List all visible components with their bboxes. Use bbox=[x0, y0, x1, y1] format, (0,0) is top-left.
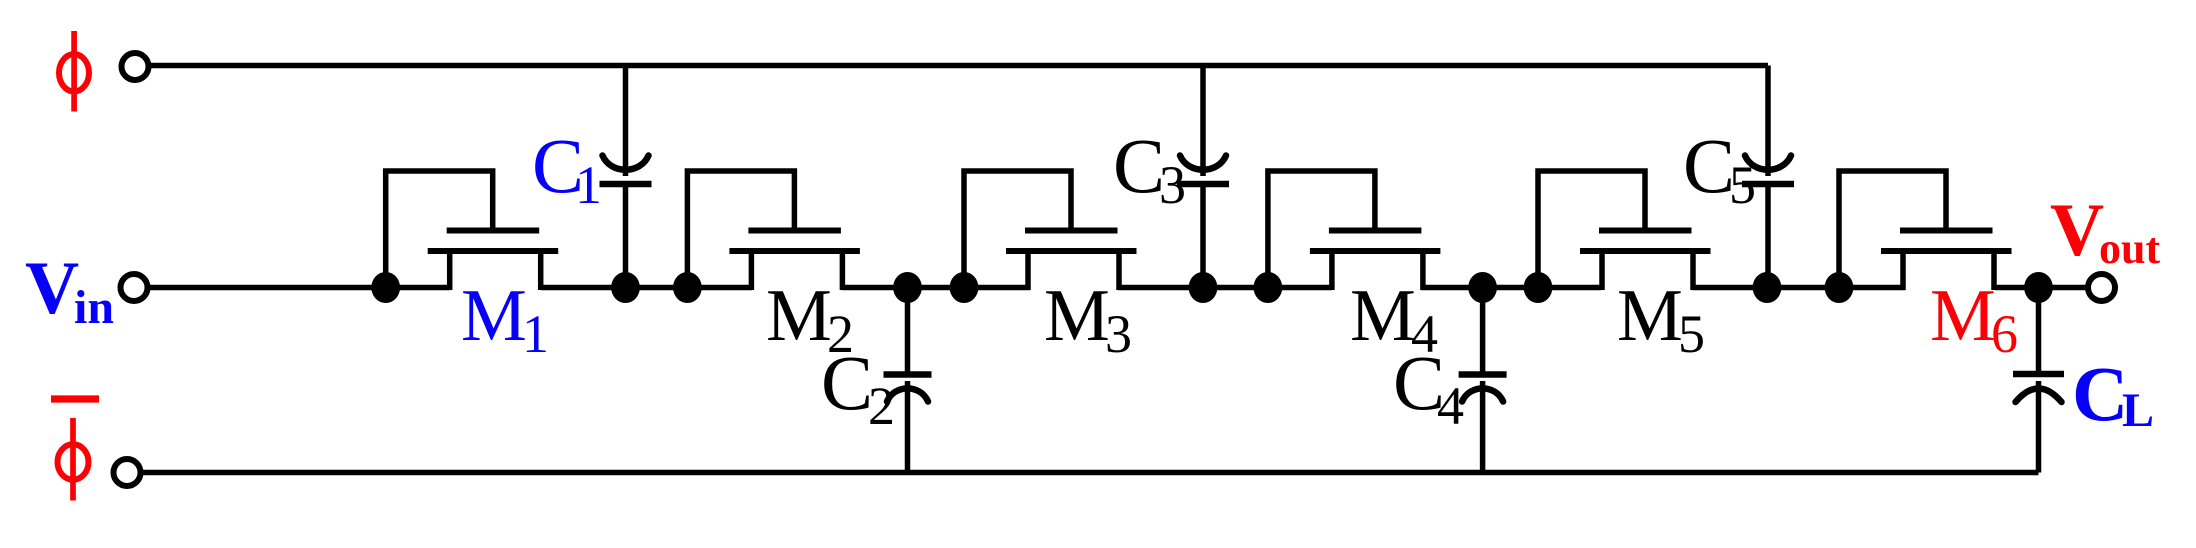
svg-text:1: 1 bbox=[575, 155, 602, 215]
node dot: M6 gate tie n5 bbox=[1825, 272, 1854, 303]
capacitor CL (load) bbox=[2013, 285, 2064, 473]
svg-text:3: 3 bbox=[1105, 304, 1132, 364]
node phi: clock phi terminal bbox=[122, 53, 149, 80]
capacitor C3 bbox=[1177, 66, 1229, 291]
svg-text:5: 5 bbox=[1678, 304, 1705, 364]
transistor M6 (diode-connected NMOS) bbox=[1839, 171, 2012, 291]
wire: M2 to M3 (node n2) bbox=[842, 285, 1030, 291]
svg-text:5: 5 bbox=[1729, 155, 1756, 215]
node dot: M4 gate tie n3 bbox=[1254, 272, 1283, 303]
svg-text:4: 4 bbox=[1437, 376, 1464, 436]
svg-text:M: M bbox=[461, 275, 527, 357]
svg-text:2: 2 bbox=[868, 376, 895, 436]
label phi (top clock) bbox=[59, 31, 89, 112]
capacitor C5 bbox=[1742, 66, 1794, 291]
svg-text:M: M bbox=[1044, 275, 1110, 357]
svg-text:6: 6 bbox=[1991, 304, 2018, 364]
svg-text:M: M bbox=[1617, 275, 1683, 357]
node dot: M2 gate tie n1 bbox=[673, 272, 702, 303]
svg-text:in: in bbox=[74, 281, 114, 334]
node dot: M3 gate tie n2 bbox=[950, 272, 979, 303]
wire: M1 to M2 (node n1) bbox=[541, 285, 752, 291]
svg-text:C: C bbox=[1113, 122, 1165, 209]
node dot: C2 tap n2 bbox=[893, 272, 922, 303]
transistor M2 (diode-connected NMOS) bbox=[687, 171, 860, 291]
node dot: M1 gate tie bbox=[371, 272, 400, 303]
wire: bottom clock rail phi-bar bbox=[143, 470, 2039, 476]
svg-text:M: M bbox=[1930, 275, 1996, 357]
node dot: output node bbox=[2024, 272, 2053, 303]
transistor M3 (diode-connected NMOS) bbox=[964, 171, 1137, 291]
node dot: C4 tap n4 bbox=[1468, 272, 1497, 303]
node dot: C1 tap n1 bbox=[611, 272, 640, 303]
node dot: C5 tap n5 bbox=[1753, 272, 1782, 303]
node Vout: output terminal bbox=[2088, 274, 2115, 301]
node Vin: input terminal bbox=[121, 274, 148, 301]
svg-text:out: out bbox=[2099, 224, 2160, 273]
svg-text:C: C bbox=[821, 339, 873, 426]
svg-text:V: V bbox=[25, 247, 79, 330]
transistor M4 (diode-connected NMOS) bbox=[1268, 171, 1441, 291]
svg-text:1: 1 bbox=[522, 304, 549, 364]
svg-text:C: C bbox=[1683, 122, 1735, 209]
node dot: M5 gate tie n4 bbox=[1524, 272, 1553, 303]
wire: top clock rail phi bbox=[150, 63, 1768, 69]
node dot: C3 tap n3 bbox=[1189, 272, 1218, 303]
node phibar: clock phi-bar terminal bbox=[114, 459, 141, 486]
wire: Vin to M1 bbox=[150, 285, 450, 291]
transistor M5 (diode-connected NMOS) bbox=[1538, 171, 1711, 291]
capacitor C1 bbox=[600, 66, 652, 291]
capacitor C2 bbox=[884, 285, 932, 473]
svg-text:L: L bbox=[2122, 384, 2154, 437]
label phi-bar (bottom clock) bbox=[51, 399, 99, 501]
svg-text:V: V bbox=[2050, 189, 2104, 272]
wire: M5 to M6 (node n5) bbox=[1692, 285, 1905, 291]
svg-text:C: C bbox=[2072, 350, 2128, 437]
capacitor C4 bbox=[1459, 285, 1507, 473]
wire: M4 to M5 (node n4) bbox=[1421, 285, 1601, 291]
wire: M3 to M4 (node n3) bbox=[1118, 285, 1332, 291]
transistor M1 (diode-connected NMOS) bbox=[386, 171, 559, 291]
svg-text:3: 3 bbox=[1159, 155, 1186, 215]
wire: M6 to Vout (output node) bbox=[1995, 285, 2087, 291]
